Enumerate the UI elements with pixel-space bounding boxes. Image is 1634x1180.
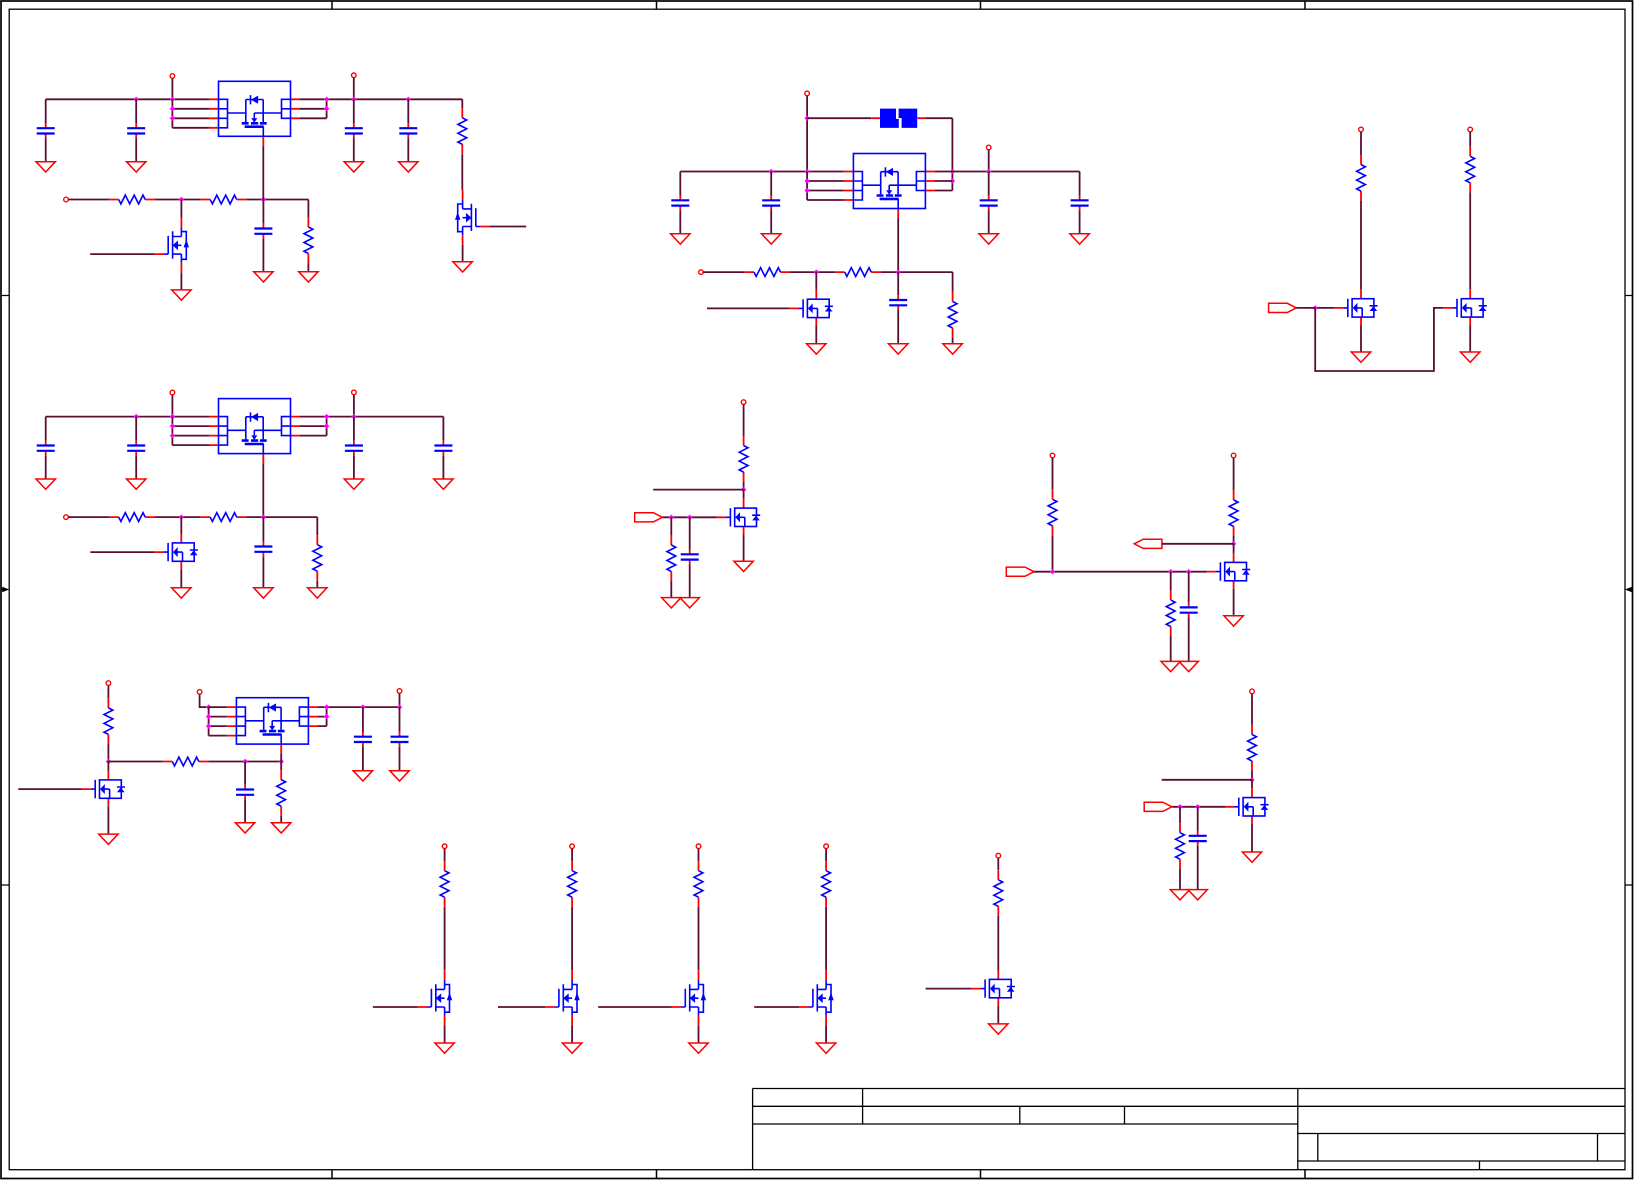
capacitor C3 — [345, 123, 363, 138]
port P7 — [1359, 127, 1364, 132]
junction — [324, 97, 329, 102]
resistor R11 — [201, 513, 247, 522]
zone ticks bottom — [332, 1170, 1305, 1179]
port P14 — [1231, 453, 1236, 458]
wire — [770, 172, 772, 196]
wire — [1197, 807, 1199, 831]
wire — [988, 172, 990, 196]
wire — [244, 762, 246, 785]
wire — [107, 686, 109, 699]
wire — [362, 747, 364, 771]
wire — [806, 96, 808, 172]
transistor Q8 drain stub — [1233, 544, 1235, 553]
port P1 — [170, 74, 175, 79]
wire — [107, 806, 109, 834]
wire — [353, 78, 355, 100]
capacitor C11 — [37, 441, 55, 456]
junction — [170, 414, 175, 419]
wire — [1179, 869, 1181, 890]
ground — [734, 561, 753, 571]
wire — [897, 310, 899, 344]
capacitor C16 — [681, 550, 699, 565]
port arrow PA4 — [1006, 567, 1034, 576]
wire — [280, 816, 282, 823]
ground — [172, 290, 191, 300]
transistor Q1 — [455, 190, 490, 245]
wire — [988, 150, 990, 172]
wire — [743, 535, 745, 562]
ground — [172, 588, 191, 598]
wire — [825, 1025, 827, 1043]
junction — [206, 714, 211, 719]
resistor R13 — [739, 436, 748, 482]
wire — [997, 1006, 999, 1024]
port P12 — [741, 400, 746, 405]
wire Q12 gate — [498, 1006, 545, 1008]
capacitor C2 — [127, 123, 145, 138]
ground — [353, 771, 372, 781]
junction — [741, 487, 746, 492]
zone ticks left — [1, 296, 9, 886]
wire — [208, 761, 281, 763]
ground — [36, 479, 55, 489]
junction — [986, 169, 991, 174]
port P21 — [696, 844, 701, 849]
wire IC left pins — [172, 417, 209, 446]
junction — [1177, 804, 1182, 809]
wire — [461, 99, 463, 108]
wire to fuse — [807, 117, 871, 119]
resistor R10 — [109, 513, 155, 522]
capacitor C18 — [354, 732, 372, 747]
wire — [135, 138, 137, 161]
transistor Q12 — [545, 970, 580, 1025]
resistor R22 — [1176, 823, 1185, 869]
wire — [1170, 572, 1172, 591]
ground — [344, 479, 363, 489]
ground — [299, 272, 318, 282]
junction — [179, 514, 184, 519]
ground — [235, 823, 254, 833]
transistor Q7 — [717, 499, 761, 535]
wire — [246, 517, 317, 535]
wire — [952, 338, 954, 344]
wire Q14 gate — [754, 1006, 799, 1008]
wire Q7 gate — [662, 516, 716, 518]
ground — [99, 834, 118, 844]
junction — [324, 423, 329, 428]
junction — [351, 414, 356, 419]
wire — [442, 417, 444, 441]
ground — [562, 1043, 581, 1053]
wire — [1188, 572, 1190, 603]
wire — [407, 138, 409, 161]
wire — [1170, 636, 1172, 661]
junction — [261, 514, 266, 519]
wire — [200, 694, 209, 707]
wire — [461, 154, 463, 190]
resistor R25 — [694, 861, 703, 907]
junction — [950, 169, 955, 174]
wire — [1360, 325, 1362, 352]
fuse F1 — [880, 109, 917, 128]
resistor R27 — [994, 870, 1003, 916]
wire — [399, 693, 401, 707]
ground — [390, 771, 409, 781]
wire — [1079, 210, 1081, 233]
ground — [344, 162, 363, 172]
capacitor C1 — [37, 123, 55, 138]
wire IC bottom pin — [897, 218, 899, 272]
wire — [171, 395, 173, 417]
capacitor C6 — [671, 196, 689, 211]
ground — [1242, 852, 1261, 862]
wire — [135, 99, 137, 123]
wire — [444, 849, 446, 861]
junction — [206, 704, 211, 709]
ground — [989, 1024, 1008, 1034]
junction — [170, 423, 175, 428]
wire — [571, 849, 573, 861]
port P20 — [570, 844, 575, 849]
port P22 — [824, 844, 829, 849]
resistor R4 — [304, 217, 313, 263]
wire Q1 gate — [490, 226, 527, 228]
wire — [571, 1025, 573, 1043]
wire — [743, 482, 745, 490]
wire — [444, 907, 446, 970]
ground — [272, 823, 291, 833]
resistor R16 — [1229, 490, 1238, 536]
zone arrow left — [1, 587, 9, 593]
resistor R3 — [201, 195, 247, 204]
resistor R7 — [948, 292, 957, 338]
ground — [254, 588, 273, 598]
resistor R8 — [1357, 155, 1366, 201]
wire — [689, 564, 691, 597]
wire — [1251, 694, 1253, 725]
capacitor C10 — [889, 295, 907, 310]
junction — [261, 197, 266, 202]
transistor Q15 — [971, 970, 1015, 1006]
capacitor C17 — [1180, 603, 1198, 618]
wire net VIN3 bus — [46, 416, 444, 418]
IC U4 — [227, 698, 318, 754]
wire — [1179, 807, 1181, 823]
wire — [244, 800, 246, 823]
junction — [804, 178, 809, 183]
wire — [881, 272, 953, 292]
junction — [134, 414, 139, 419]
ground — [399, 162, 418, 172]
ground — [807, 344, 826, 354]
ground — [127, 162, 146, 172]
junction — [406, 97, 411, 102]
resistor R5 — [744, 268, 790, 277]
port P8 — [1468, 127, 1473, 132]
wire — [997, 916, 999, 970]
resistor R20 — [277, 770, 286, 816]
port P6 — [699, 270, 704, 275]
wire — [703, 271, 744, 273]
capacitor C14 — [434, 441, 452, 456]
resistor R6 — [835, 268, 881, 277]
wire — [180, 569, 182, 588]
wire — [1360, 201, 1362, 290]
wire stub net — [653, 489, 743, 491]
junction — [814, 269, 819, 274]
ground — [1070, 234, 1089, 244]
wire — [107, 744, 109, 762]
wire — [353, 138, 355, 161]
junction — [134, 97, 139, 102]
wire — [307, 263, 309, 272]
wire net FB3 — [155, 516, 201, 518]
wire — [45, 456, 47, 479]
wire — [1296, 307, 1315, 309]
wire Q4 gate — [1315, 307, 1334, 309]
wire — [825, 849, 827, 861]
wire — [180, 272, 182, 290]
wire — [280, 762, 282, 771]
ground — [762, 234, 781, 244]
IC U3 — [209, 399, 300, 464]
capacitor C13 — [345, 441, 363, 456]
junction — [1050, 569, 1055, 574]
resistor R2 — [109, 195, 155, 204]
ground — [979, 234, 998, 244]
wire net FB1 — [155, 199, 201, 201]
junction — [669, 515, 674, 520]
capacitor C4 — [399, 123, 417, 138]
wire — [262, 200, 264, 224]
ground — [434, 479, 453, 489]
wire — [997, 858, 999, 870]
wire Q13 gate — [598, 1006, 671, 1008]
ground — [453, 262, 472, 272]
junction — [397, 704, 402, 709]
transistor Q13 — [672, 970, 707, 1025]
zone ticks top — [332, 1, 1305, 9]
junction — [324, 106, 329, 111]
wire — [689, 517, 691, 549]
transistor Q4 — [1334, 289, 1378, 325]
wire — [399, 707, 401, 732]
port P11 — [64, 515, 69, 520]
junction — [170, 433, 175, 438]
resistor R9 — [1466, 147, 1475, 193]
wire Q11 gate — [373, 1006, 418, 1008]
port P18 — [1250, 689, 1255, 694]
wire — [1233, 458, 1235, 490]
port P9 — [170, 390, 175, 395]
transistor Q10 — [1225, 788, 1269, 824]
port P4 — [805, 91, 810, 96]
capacitor C8 — [980, 196, 998, 211]
IC U2 — [844, 154, 935, 219]
wire — [1052, 535, 1054, 571]
wire — [698, 849, 700, 861]
wire — [1233, 536, 1235, 544]
wire — [743, 490, 745, 499]
wire Q2 gate — [90, 253, 154, 255]
wire — [135, 456, 137, 479]
junction — [1195, 804, 1200, 809]
port arrow PA1 — [1269, 303, 1297, 312]
title block table — [753, 1089, 1625, 1170]
wire Q15 gate — [926, 988, 972, 990]
junction — [1249, 777, 1254, 782]
ground — [1224, 616, 1243, 626]
junction — [324, 704, 329, 709]
wire — [45, 417, 47, 441]
wire — [679, 172, 681, 196]
capacitor C12 — [127, 441, 145, 456]
zone ticks right — [1625, 296, 1633, 886]
junction — [1313, 305, 1318, 310]
capacitor C19 — [391, 732, 409, 747]
junction — [804, 116, 809, 121]
junction — [179, 197, 184, 202]
wire net FB2 — [790, 271, 835, 273]
wire — [1251, 824, 1253, 852]
wire gate link — [1315, 308, 1443, 371]
junction — [242, 759, 247, 764]
wire — [362, 707, 364, 732]
wire — [68, 199, 109, 201]
wire — [262, 517, 264, 542]
wire — [571, 907, 573, 970]
junction — [324, 414, 329, 419]
junction — [1168, 569, 1173, 574]
wire — [45, 138, 47, 161]
wire — [743, 405, 745, 437]
resistor R18 — [104, 698, 113, 744]
capacitor C21 — [1189, 831, 1207, 846]
wire — [815, 272, 817, 290]
wire — [68, 516, 109, 518]
ground — [1461, 352, 1480, 362]
junction — [1186, 569, 1191, 574]
ground — [671, 234, 690, 244]
resistor R23 — [440, 861, 449, 907]
IC U1 — [209, 81, 300, 146]
transistor Q9 — [81, 771, 125, 807]
wire IC right pins — [300, 417, 327, 436]
wire — [262, 239, 264, 272]
wire — [353, 456, 355, 479]
resistor R15 — [1048, 490, 1057, 536]
wire net VIN2 bus — [680, 171, 1079, 173]
wire stub net — [1162, 779, 1252, 781]
ground — [816, 1043, 835, 1053]
wire net VIN1 bus — [46, 98, 463, 100]
port P5 — [986, 145, 991, 150]
wire — [1469, 325, 1471, 352]
ground — [435, 1043, 454, 1053]
resistor R21 — [1248, 725, 1257, 771]
wire IC left pins — [209, 707, 227, 736]
ground — [662, 598, 681, 608]
junction — [804, 188, 809, 193]
junction — [351, 97, 356, 102]
junction — [804, 169, 809, 174]
wire IC bottom pin — [280, 754, 282, 762]
wire — [1052, 458, 1054, 490]
capacitor C7 — [762, 196, 780, 211]
wire Q9 gate — [18, 788, 81, 790]
capacitor C5 — [254, 224, 272, 239]
wire IC right pins — [318, 707, 400, 726]
junction — [769, 169, 774, 174]
wire — [1469, 192, 1471, 289]
transistor Q6 — [154, 534, 198, 570]
resistor R12 — [313, 535, 322, 581]
wire — [1233, 589, 1235, 616]
junction — [206, 723, 211, 728]
resistor R14 — [667, 535, 676, 581]
resistor R17 — [1166, 590, 1175, 636]
junction — [106, 759, 111, 764]
wire IC right pins — [935, 181, 952, 191]
wire — [107, 762, 109, 771]
port P19 — [442, 844, 447, 849]
wire — [444, 1025, 446, 1043]
wire IC left pins — [172, 99, 209, 128]
wire fuse to bus — [926, 118, 952, 190]
wire — [135, 417, 137, 441]
wire — [353, 417, 355, 441]
wire — [1162, 543, 1234, 545]
wire — [353, 395, 355, 417]
wire — [670, 517, 672, 535]
wire — [1079, 172, 1081, 196]
port P3 — [64, 197, 69, 202]
port P17 — [106, 681, 111, 686]
capacitor C9 — [1071, 196, 1089, 211]
wire Q10 gate — [1172, 806, 1225, 808]
wire Q6 gate — [90, 551, 154, 553]
wire — [407, 99, 409, 123]
port P23 — [996, 853, 1001, 858]
wire IC bottom pin — [262, 463, 264, 517]
port arrow PA3 — [1134, 539, 1162, 548]
port P16 — [397, 689, 402, 694]
wire — [307, 200, 309, 218]
capacitor C15 — [254, 542, 272, 557]
ground — [889, 344, 908, 354]
wire — [353, 99, 355, 123]
ground — [943, 344, 962, 354]
fuse F1 red stubs — [871, 117, 926, 119]
wire — [1251, 771, 1253, 780]
junction — [324, 714, 329, 719]
ground — [127, 479, 146, 489]
junction — [170, 116, 175, 121]
wire — [246, 199, 308, 201]
junction — [950, 178, 955, 183]
wire — [1469, 132, 1471, 147]
ground — [254, 272, 273, 282]
wire — [825, 907, 827, 970]
wire — [1197, 846, 1199, 890]
ground — [1170, 890, 1189, 900]
resistor R1 — [458, 108, 467, 154]
resistor R19 — [163, 757, 209, 766]
wire — [442, 456, 444, 479]
port arrow PA2 — [635, 513, 663, 522]
wire — [462, 245, 464, 262]
